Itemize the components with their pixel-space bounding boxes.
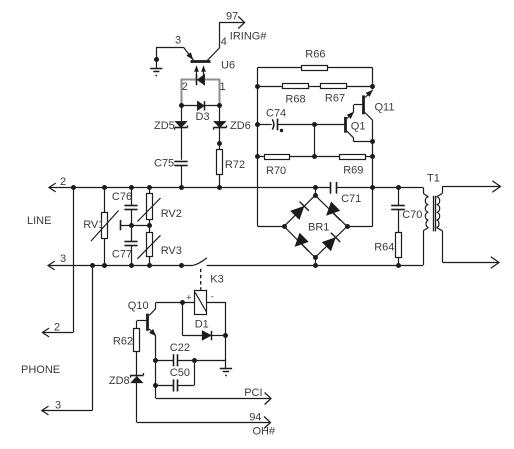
wire C75 to LINE [181, 165, 183, 187]
junction LINE2-x73 [71, 185, 76, 190]
wire C70 top [398, 188, 400, 206]
wire right column lower [372, 157, 374, 227]
wire C50 row left [156, 385, 173, 387]
wire C74 row left [258, 124, 272, 126]
wire T1 secondary bottom [442, 231, 498, 263]
wire C70-R64 [398, 209, 400, 232]
diode BR1 upper-left [291, 202, 309, 220]
wire RV2 top [149, 188, 151, 194]
svg-text:R72: R72 [225, 159, 245, 171]
wire ZD8 bottom [136, 383, 138, 423]
wire relay left [156, 302, 195, 304]
off-page connector arrow IRING# [238, 17, 244, 29]
net label OH# [253, 426, 277, 438]
svg-text:K3: K3 [210, 274, 223, 286]
wire PHONE-2 [42, 188, 73, 333]
wire D1 right [211, 335, 226, 337]
svg-text:C71: C71 [341, 193, 361, 205]
LED of U6 [197, 75, 205, 86]
svg-text:3: 3 [175, 35, 181, 47]
svg-text:R66: R66 [305, 49, 325, 61]
junction left of D3 [179, 103, 184, 108]
designator Q10 [128, 300, 149, 312]
designator Q11 [375, 102, 395, 114]
wire relay right [207, 303, 226, 361]
zener ZD6 [213, 121, 226, 129]
wire PHONE-3 [42, 265, 93, 411]
resistor R68 [283, 84, 309, 89]
relay K3 dashed link [200, 269, 202, 290]
svg-text:Q1: Q1 [351, 121, 366, 133]
wire opto box top-right [205, 79, 220, 81]
net label 94 [249, 412, 261, 424]
svg-text:R68: R68 [285, 94, 305, 106]
wire ZD5-C75 column [181, 106, 183, 160]
junction right column LINE [370, 185, 375, 190]
junction LINE3-BR1 [313, 263, 318, 268]
varistor RV1 [91, 211, 119, 242]
designator C76 [112, 191, 132, 203]
junction LINE3-C77 [129, 263, 134, 268]
wire C22 row right [178, 360, 226, 362]
transistor U6 collector [208, 48, 220, 61]
junction LINE2-C70 [396, 185, 401, 190]
svg-text:R62: R62 [113, 336, 133, 348]
ground G1 stem [154, 47, 159, 68]
svg-text:T1: T1 [427, 173, 440, 185]
junction LINE3-K3 [179, 263, 184, 268]
diode D1 [202, 331, 211, 340]
designator BR1 [308, 222, 329, 234]
designator R70 [266, 165, 286, 177]
wire R70 row left [258, 156, 265, 158]
svg-text:+: + [186, 293, 191, 303]
svg-text:C70: C70 [402, 209, 422, 221]
net label 3 (LINE) [60, 253, 66, 265]
wire PCI [156, 385, 270, 398]
wire right column mid [372, 142, 374, 157]
svg-text:4: 4 [221, 36, 227, 48]
junction LINE2-C76 [129, 185, 134, 190]
designator R68 [285, 94, 305, 106]
transistor U6 emitter [184, 47, 194, 60]
resistor R64 [396, 233, 402, 258]
svg-text:C74: C74 [266, 107, 286, 119]
transistor Q11 base bar [362, 95, 365, 114]
junction R68 row left [255, 84, 260, 89]
designator RV1 [83, 219, 104, 231]
designator T1 [427, 173, 440, 185]
wire C76-C77 [131, 209, 133, 241]
junction LINE2-C75 [179, 185, 184, 190]
off-page arrow LINE 3 [48, 261, 55, 270]
junction C74-R70 column [312, 122, 317, 127]
off-page arrow PCI [265, 393, 271, 405]
designator C22 [170, 342, 190, 354]
off-page arrow secondary top [492, 181, 500, 192]
svg-text:R64: R64 [374, 241, 394, 253]
off-page arrow secondary bottom [491, 257, 499, 268]
transistor Q10 base bar [146, 314, 149, 331]
junction R70-R69 [312, 154, 317, 159]
wire R62-ZD8 [136, 352, 138, 376]
net label 97 [226, 11, 238, 23]
svg-text:2: 2 [60, 176, 66, 188]
junction BR1 right [345, 224, 350, 229]
junction LINE3-R64 [396, 263, 401, 268]
varistor RV3 [137, 233, 160, 259]
pin label 2 [182, 81, 188, 93]
svg-text:RV3: RV3 [161, 245, 182, 257]
svg-text:C50: C50 [170, 367, 190, 379]
varistor RV2 [137, 194, 160, 222]
wire C22 row left [156, 360, 173, 362]
svg-text:2: 2 [182, 81, 188, 93]
off-page arrow LINE 2 [49, 183, 56, 192]
capacitor C77 [124, 242, 137, 246]
diode D3 [197, 101, 204, 110]
terminal bar mid [120, 220, 122, 230]
resistor R67 [321, 84, 347, 89]
wire R72 to LINE [219, 174, 221, 187]
designator ZD8 [109, 375, 130, 387]
svg-text:1: 1 [220, 81, 226, 93]
svg-text:RV1: RV1 [83, 219, 104, 231]
transistor Q10 emitter [149, 329, 156, 360]
svg-text:U6: U6 [221, 60, 235, 72]
wire mid row [120, 225, 149, 227]
svg-text:C75: C75 [154, 157, 174, 169]
transistor Q1 collector [347, 131, 373, 142]
designator C70 [402, 209, 422, 221]
pin label 1 [220, 81, 226, 93]
designator Q1 [351, 121, 366, 133]
wire center column [314, 125, 316, 157]
svg-text:97: 97 [226, 11, 238, 23]
wire R69 right [366, 156, 373, 158]
svg-text:ZD8: ZD8 [109, 375, 130, 387]
wire left column to BR1 [258, 226, 284, 228]
pin label 3 [175, 35, 181, 47]
wire C76 top [131, 188, 133, 206]
capacitor C50 [174, 379, 178, 391]
wire R66 row left [258, 67, 302, 69]
wire D1 left [182, 303, 202, 336]
designator D3 [196, 111, 210, 123]
diode BR1 lower-right [322, 233, 340, 251]
designator C74 [266, 107, 286, 119]
resistor R69 [340, 155, 366, 160]
off-page arrow PHONE 3 [42, 406, 49, 415]
svg-text:C77: C77 [112, 248, 132, 260]
wire left column lower [257, 86, 259, 226]
resistor R66 [302, 66, 328, 71]
junction right of D3 [217, 103, 222, 108]
transformer T1 primary winding [423, 193, 428, 230]
wire D3 row [181, 105, 220, 107]
svg-text:PCI: PCI [244, 387, 262, 399]
wire R64 bottom [398, 257, 400, 265]
net name LINE [27, 215, 51, 227]
junction D1 right [223, 333, 228, 338]
designator RV3 [161, 245, 182, 257]
net name PHONE [21, 364, 60, 376]
svg-text:BR1: BR1 [308, 222, 329, 234]
junction LINE3-x92 [90, 263, 95, 268]
wire right column to BR1 [347, 226, 373, 228]
opto arrow 2 [202, 66, 206, 75]
wire opto box left [181, 79, 183, 106]
junction mid-C column [129, 223, 134, 228]
net label 3 (PHONE) [55, 400, 61, 412]
transformer T1 core [434, 196, 436, 232]
wire right column upper [372, 68, 374, 90]
svg-text:R67: R67 [325, 92, 345, 104]
wire left column upper [257, 68, 259, 87]
junction LINE2-BR1 [313, 185, 318, 190]
wire LINE-3 right [207, 265, 424, 267]
transistor Q11 collector [365, 113, 373, 142]
wire R69 left [315, 156, 340, 158]
svg-text:C76: C76 [112, 191, 132, 203]
designator R62 [113, 336, 133, 348]
svg-text:R69: R69 [343, 165, 363, 177]
capacitor C74 [272, 119, 283, 133]
junction C22 left [153, 358, 158, 363]
wire opto box right [219, 79, 221, 106]
capacitor C70 [391, 206, 405, 210]
wire BR1 bottom stem [315, 258, 317, 266]
resistor R62 [134, 329, 140, 352]
junction Q1 collector [370, 139, 375, 144]
wire C50 row right [178, 360, 195, 385]
junction LINE3-RV1 [102, 263, 107, 268]
wire R70-R69 [290, 156, 315, 158]
svg-text:2: 2 [54, 322, 60, 334]
transformer T1 secondary winding [437, 193, 443, 230]
net label 2 (LINE) [60, 176, 66, 188]
diode BR1 upper-right [327, 202, 341, 220]
wire LINE-2 right [337, 187, 423, 189]
off-page arrow PHONE 2 [42, 328, 49, 337]
svg-text:R70: R70 [266, 165, 286, 177]
svg-text:OH#: OH# [253, 426, 277, 438]
wire Q10 emitter column [155, 360, 157, 385]
junction BR1 bottom [313, 255, 318, 260]
designator R66 [305, 49, 325, 61]
capacitor C71 [331, 182, 337, 194]
wire R66 row right [328, 67, 373, 69]
wire C77 bottom [131, 246, 133, 265]
designator C50 [170, 367, 190, 379]
wire R67 row right [347, 86, 373, 88]
wire RV3 bottom [149, 256, 151, 265]
wire T1 secondary top [442, 186, 499, 193]
svg-text:RV2: RV2 [161, 208, 182, 220]
designator RV2 [161, 208, 182, 220]
junction R67 row right [370, 84, 375, 89]
transistor Q1 base bar [344, 117, 347, 133]
resistor R70 [265, 155, 290, 160]
wire LINE-2 left [49, 187, 330, 189]
junction BR1 top [313, 193, 318, 198]
capacitor C75 [174, 162, 187, 166]
svg-text:ZD5: ZD5 [154, 120, 175, 132]
designator C77 [112, 248, 132, 260]
junction relay left [180, 300, 185, 305]
wire RV1 top [104, 188, 106, 213]
wire IRING horizontal [220, 22, 244, 24]
junction LINE2-R72 [217, 185, 222, 190]
wire T1 primary bottom [423, 231, 425, 265]
wire RV2-RV3 [149, 219, 151, 232]
pin label 4 [221, 36, 227, 48]
designator D1 [195, 319, 209, 331]
net label IRING# [230, 31, 268, 43]
wire RV1 bottom [104, 238, 106, 265]
net label 2 (PHONE) [54, 322, 60, 334]
svg-text:3: 3 [60, 253, 66, 265]
svg-text:IRING#: IRING# [230, 31, 268, 43]
svg-text:D3: D3 [196, 111, 210, 123]
svg-text:D1: D1 [195, 319, 209, 331]
junction BR1 left [282, 224, 287, 229]
svg-text:94: 94 [249, 412, 261, 424]
relay K3 switch blade [193, 258, 207, 265]
zener ZD8 [130, 373, 143, 383]
junction mid-RV column [147, 223, 152, 228]
junction LINE2-RV2 [147, 185, 152, 190]
diode BR1 lower-left [295, 233, 309, 251]
ground G2 stem [225, 360, 227, 368]
zener ZD5 [175, 121, 188, 129]
svg-text:C22: C22 [170, 342, 190, 354]
wire opto box top-left [181, 79, 196, 81]
ground G1 bars [150, 69, 162, 76]
designator R67 [325, 92, 345, 104]
opto arrow 1 [195, 66, 199, 75]
designator ZD5 [154, 120, 175, 132]
wire ZD6 top [219, 106, 221, 150]
wire T1 primary top [423, 188, 425, 194]
wire LINE-3 left [48, 265, 193, 267]
wire U6 pin3 [156, 47, 183, 49]
junction C74 row left [255, 122, 260, 127]
svg-text:-: - [211, 292, 214, 302]
wire OH# [137, 422, 269, 424]
svg-text:Q10: Q10 [128, 300, 149, 312]
svg-text:ZD6: ZD6 [230, 120, 251, 132]
designator R69 [343, 165, 363, 177]
wire R68-R67 [309, 86, 321, 88]
wire R68 row left [258, 86, 283, 88]
designator C75 [154, 157, 174, 169]
designator R64 [374, 241, 394, 253]
designator C71 [341, 193, 361, 205]
svg-text:Q11: Q11 [375, 102, 395, 114]
relay K3 coil [195, 291, 207, 315]
wire C74 to Q1 base [278, 124, 345, 126]
capacitor C76 [124, 206, 137, 210]
transistor Q1 emitter [347, 105, 364, 119]
junction R70 row left [255, 154, 260, 159]
ground G2 bars [220, 369, 232, 376]
junction LINE3-RV3 [147, 263, 152, 268]
junction ZD6-R72 [217, 141, 222, 146]
designator R72 [225, 159, 245, 171]
wire Q10 base [137, 321, 147, 329]
designator ZD6 [230, 120, 251, 132]
off-page arrow OH# [264, 417, 270, 429]
relay plus mark [186, 293, 191, 303]
bridge BR1 diamond [284, 195, 347, 257]
junction C22-C50 riser [192, 358, 197, 363]
junction LINE2-RV1 [102, 185, 107, 190]
svg-text:3: 3 [55, 400, 61, 412]
designator K3 [210, 274, 223, 286]
wire BR1 top stem [315, 188, 317, 196]
junction R69 right [370, 154, 375, 159]
capacitor C22 [174, 354, 178, 366]
transistor Q10 collector [149, 303, 156, 316]
net label PCI [244, 387, 262, 399]
junction C50 left [153, 383, 158, 388]
svg-text:LINE: LINE [27, 215, 51, 227]
transistor U6 base bar [191, 60, 211, 63]
resistor R72 [217, 150, 223, 175]
wire U6 collector to IRING [219, 22, 221, 47]
svg-text:PHONE: PHONE [21, 364, 60, 376]
designator U6 [221, 60, 235, 72]
relay minus mark [211, 292, 214, 302]
transistor Q11 emitter [365, 90, 373, 97]
